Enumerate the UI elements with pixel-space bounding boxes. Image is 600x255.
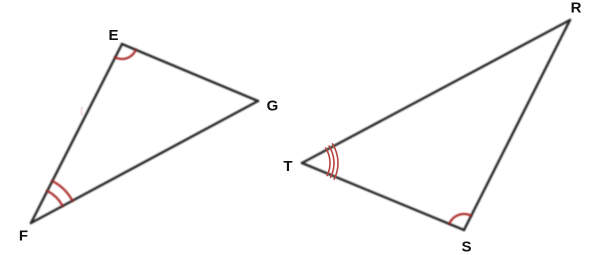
svg-text:G: G [267, 98, 279, 115]
side TR [302, 20, 570, 163]
svg-text:E: E [108, 27, 118, 44]
angle arc at T (triple, outer) [333, 144, 338, 179]
angle arc at F (double, outer) [52, 181, 72, 201]
svg-text:R: R [571, 0, 582, 17]
angle arc at E (single) [115, 50, 136, 59]
side EF [31, 44, 122, 223]
angle arc at S (single) [449, 214, 471, 224]
side ST [302, 163, 464, 230]
angle arc at F (double, inner) [47, 191, 62, 206]
svg-text:S: S [461, 239, 471, 255]
angle arc at T (triple, middle) [329, 146, 334, 177]
svg-text:T: T [283, 158, 292, 175]
svg-text:F: F [19, 228, 28, 245]
faint stray pen mark near side EF [81, 107, 82, 116]
angle arc at T (triple, inner) [326, 148, 330, 175]
side FG [31, 101, 258, 223]
side GE [122, 44, 258, 101]
side RS [464, 20, 570, 230]
